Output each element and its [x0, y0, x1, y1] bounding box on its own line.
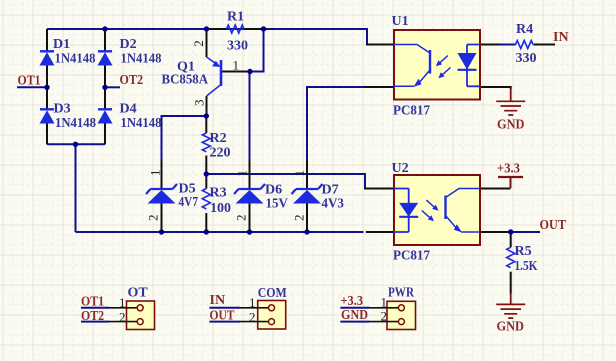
wire U1 out to R4 [480, 44, 500, 46]
svg-text:R2: R2 [210, 131, 227, 146]
svg-text:2: 2 [249, 310, 256, 325]
wire OT1 to connector [81, 307, 109, 309]
connector COM body [258, 301, 286, 330]
svg-text:U2: U2 [392, 161, 409, 176]
pin COM 1 [240, 307, 268, 309]
svg-text:+3.3: +3.3 [341, 294, 364, 309]
svg-text:330: 330 [227, 39, 248, 54]
svg-text:OT2: OT2 [81, 309, 104, 324]
connector PWR body [387, 301, 416, 329]
zener diode D7 [292, 184, 323, 204]
wire R2 bottom node to U2 anode [206, 174, 365, 189]
svg-text:OT1: OT1 [18, 73, 41, 88]
ground symbol U1 GND [496, 88, 525, 116]
junction node bus D6 [247, 229, 252, 234]
wire D5 pin2 [161, 204, 163, 233]
svg-text:1N4148: 1N4148 [55, 52, 96, 67]
pin PWR 2 [370, 321, 399, 323]
wire Q1 collector pin bottom [206, 96, 208, 116]
svg-text:4V3: 4V3 [322, 197, 344, 212]
light arrows U1 [436, 56, 451, 79]
resistor R3 [202, 189, 210, 209]
svg-text:1N4148: 1N4148 [55, 116, 96, 131]
connector OT body [127, 301, 155, 330]
diode U2 LED [394, 189, 418, 233]
wire R3 pins [205, 174, 207, 232]
wire D6 pin1 [249, 160, 251, 189]
svg-text:220: 220 [210, 146, 231, 161]
wire top bus from bridge to U1 step [47, 29, 367, 45]
svg-text:1: 1 [233, 58, 240, 73]
diode D4 [98, 109, 113, 123]
pin COM 2 [240, 321, 268, 323]
diode U1 LED [458, 45, 481, 87]
transistor Q1 [207, 57, 222, 96]
wire U2 emitter to OUT node [480, 231, 511, 233]
svg-text:1N4148: 1N4148 [121, 116, 162, 131]
wire Q1 base node down to D6 [249, 72, 251, 161]
svg-text:2: 2 [292, 215, 307, 222]
svg-text:R4: R4 [516, 22, 533, 37]
svg-text:1: 1 [119, 295, 126, 310]
pin circle OT 1 [137, 305, 143, 311]
pin circle OT 2 [137, 319, 143, 325]
svg-text:D6: D6 [265, 183, 282, 198]
wire IN to connector [209, 307, 240, 309]
light arrows U2 [422, 200, 439, 221]
wire bridge bottom [47, 143, 105, 145]
svg-text:1: 1 [381, 295, 388, 310]
wire Q1 base pin [222, 71, 250, 73]
diode D3 [40, 109, 55, 123]
transistor U1 phototransistor [394, 45, 430, 87]
svg-text:U1: U1 [392, 14, 409, 29]
svg-text:PC817: PC817 [393, 249, 430, 264]
wire U1 left pins [364, 45, 394, 88]
pin OT 1 [109, 307, 137, 309]
svg-text:D3: D3 [54, 102, 71, 117]
wire D7 pin2 [306, 204, 308, 233]
wire Q1 emitter pin top [206, 29, 208, 57]
wire OUT stub [511, 231, 540, 233]
wire Q1 base to R1 right node [250, 29, 264, 72]
svg-text:2: 2 [146, 215, 161, 222]
junction node OT2 [102, 85, 107, 90]
svg-text:COM: COM [258, 286, 287, 301]
junction node bus D7 [304, 229, 309, 234]
junction node top-left bridge right column [102, 26, 107, 31]
wire R5 bottom pin to GND [510, 272, 512, 294]
wire U2 left pins [364, 189, 394, 233]
wire bridge bottom to ground bus [75, 144, 77, 232]
junction node bridge bottom [73, 142, 78, 147]
svg-text:2: 2 [191, 40, 206, 47]
wire R5 top pin [510, 232, 512, 247]
svg-text:R3: R3 [210, 186, 227, 201]
junction node OUT R5 [508, 229, 513, 234]
pin circle PWR 1 [398, 305, 404, 311]
junction node R1 right [261, 26, 266, 31]
wire ground bus bottom [76, 231, 364, 233]
wire OT1 stub [17, 86, 47, 88]
svg-text:GND: GND [497, 118, 525, 133]
zener diode D6 [234, 184, 265, 204]
diode D2 [98, 51, 113, 65]
junction node R2 R3 [204, 171, 209, 176]
svg-text:1N4148: 1N4148 [121, 52, 162, 67]
svg-text:3: 3 [192, 100, 207, 107]
pin circle COM 1 [269, 305, 275, 311]
svg-text:4V7: 4V7 [179, 195, 199, 210]
svg-text:D4: D4 [120, 102, 137, 117]
wire Q1 collector node to D5 [162, 116, 207, 161]
op-amp U2 optocoupler body [394, 175, 480, 245]
wire D7 pin1 [306, 160, 308, 189]
ground symbol R5 GND [496, 293, 525, 318]
svg-text:1: 1 [147, 170, 162, 177]
junction node Q1 base [247, 69, 252, 74]
wire U2 collector to +3.3 [480, 188, 511, 190]
op-amp U1 optocoupler body [394, 30, 480, 100]
svg-text:D1: D1 [53, 37, 70, 52]
svg-text:IN: IN [210, 293, 226, 308]
wire GND to connector [340, 321, 369, 323]
power port +3.3 [498, 177, 523, 188]
svg-text:1: 1 [249, 295, 256, 310]
wire OT2 stub [105, 86, 120, 88]
svg-text:PWR: PWR [388, 286, 415, 301]
svg-text:GND: GND [497, 320, 525, 335]
resistor R2 [202, 133, 210, 152]
wire bridge right column [104, 29, 106, 144]
svg-text:OT: OT [128, 286, 149, 301]
wire U1 emitter to GND corner [480, 87, 511, 89]
diode D1 [40, 51, 55, 65]
svg-text:D7: D7 [322, 183, 339, 198]
resistor R5 [507, 247, 515, 267]
svg-text:R5: R5 [515, 244, 532, 259]
wire R1 pins [207, 28, 264, 30]
svg-text:OUT: OUT [210, 308, 236, 323]
svg-text:100: 100 [210, 201, 231, 216]
svg-text:OT2: OT2 [120, 73, 144, 88]
wire R4 to IN [534, 44, 556, 46]
pin PWR 1 [370, 307, 399, 309]
svg-text:D2: D2 [120, 37, 137, 52]
pin circle COM 2 [269, 319, 275, 325]
zener diode D5 [146, 184, 177, 204]
junction node OT1 [44, 85, 49, 90]
wire D7 top to U1 emitter [307, 87, 365, 160]
wire bridge left column [46, 29, 48, 144]
svg-text:15V: 15V [266, 197, 288, 212]
transistor U2 phototransistor [446, 189, 481, 233]
junction node bus D5 [159, 229, 164, 234]
svg-text:IN: IN [553, 30, 569, 45]
svg-text:1: 1 [292, 170, 307, 177]
svg-text:1: 1 [235, 170, 250, 177]
junction node bus R3 [204, 229, 209, 234]
pin circle PWR 2 [398, 319, 404, 325]
wire R2 pins [205, 116, 207, 174]
svg-text:R1: R1 [227, 10, 244, 25]
svg-text:1.5K: 1.5K [515, 259, 538, 274]
svg-text:2: 2 [234, 215, 249, 222]
svg-text:+3.3: +3.3 [497, 161, 520, 176]
svg-text:2: 2 [381, 309, 388, 324]
svg-text:GND: GND [341, 308, 368, 323]
svg-text:OT1: OT1 [81, 294, 104, 309]
wire D5 pin1 [161, 161, 163, 190]
junction node Q1 collector R2 [204, 113, 209, 118]
pin OT 2 [109, 321, 137, 323]
wire OT2 to connector [81, 321, 109, 323]
wire +3.3 to connector [340, 307, 369, 309]
resistor R4 [516, 41, 534, 49]
wire D6 pin2 [249, 204, 251, 233]
junction node R1 left [204, 26, 209, 31]
svg-text:BC858A: BC858A [162, 73, 209, 88]
wire OUT to connector [209, 321, 240, 323]
svg-text:OUT: OUT [540, 218, 567, 233]
svg-text:PC817: PC817 [393, 104, 430, 119]
svg-text:330: 330 [516, 51, 537, 66]
svg-text:2: 2 [119, 310, 126, 325]
resistor R1 [227, 25, 245, 33]
